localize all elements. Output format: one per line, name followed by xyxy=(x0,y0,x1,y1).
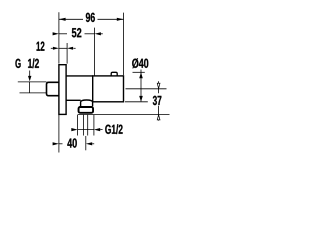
arrow G1/2 inlet down xyxy=(28,76,31,82)
arrow 52 left xyxy=(53,32,59,35)
arrow G1/2 outlet right xyxy=(94,128,100,131)
extension line nut bottom y114.6 xyxy=(78,113,170,115)
extension line outlet axis y88.8 xyxy=(126,88,167,90)
label 96 xyxy=(86,13,95,22)
arrow 12 right xyxy=(67,47,73,50)
inlet pipe thread mark xyxy=(28,82,30,93)
extension line nipple left x83.4 xyxy=(82,115,84,136)
extension line left wall x59 top xyxy=(58,12,60,63)
label D40 xyxy=(132,58,148,68)
extension line bottom of escutcheon y101.5 xyxy=(125,101,148,103)
inlet pipe bottom line xyxy=(20,92,47,94)
dimension D40 vertical line xyxy=(140,70,142,102)
wall plate xyxy=(59,65,66,115)
outlet nut xyxy=(79,107,94,113)
label G 1/2 inlet (1/2) xyxy=(28,58,39,68)
arm top line xyxy=(66,75,93,77)
arrow G1/2 outlet left xyxy=(71,128,77,131)
arrow D40 down xyxy=(139,96,143,102)
leader G1/2 inlet vertical line xyxy=(29,71,31,78)
outlet dome xyxy=(81,100,93,106)
extension line nipple right x87.7 xyxy=(87,115,89,136)
dimension 12 line xyxy=(59,47,67,49)
label G1/2 outlet xyxy=(105,124,122,134)
extension line plate front x66 xyxy=(66,43,68,64)
label 12 xyxy=(37,42,45,51)
label 52 xyxy=(72,28,82,37)
arrow D40 up xyxy=(139,72,143,78)
arrow 96 left xyxy=(59,18,66,21)
inlet union block xyxy=(47,82,60,95)
arrow 52 right xyxy=(95,32,101,35)
extension line outlet axis x85.8 xyxy=(85,136,87,150)
arm bottom line xyxy=(66,99,81,101)
label 37 xyxy=(153,96,162,105)
dimension 40 line xyxy=(59,143,63,145)
arrow 40 left xyxy=(53,142,59,145)
arrow 12 left xyxy=(53,47,59,50)
extension line nut right x93.9 xyxy=(93,115,95,136)
extension line top of escutcheon y72.3 xyxy=(133,71,145,73)
extension line arm end x94.6 xyxy=(94,28,96,76)
arrow 96 right xyxy=(117,18,124,21)
dimension 52 line xyxy=(59,33,67,35)
extension line nut left x77.8 xyxy=(77,115,79,136)
inlet pipe top line xyxy=(18,81,47,83)
arrow 37 bottom xyxy=(157,115,160,120)
label 40 xyxy=(67,138,76,147)
extension line body right x123.6 xyxy=(123,13,125,76)
dimension 37 vertical line xyxy=(158,81,160,93)
extension line left wall x59 bottom xyxy=(58,115,60,153)
dimension 96 line xyxy=(59,18,83,20)
body square (right view) xyxy=(93,76,124,102)
dimension G1/2 outlet line xyxy=(78,129,94,131)
arrow 37 top xyxy=(157,83,160,88)
escutcheon top arc bump xyxy=(111,72,117,76)
label G 1/2 inlet (G) xyxy=(15,59,20,68)
arrow 40 right xyxy=(86,142,92,145)
